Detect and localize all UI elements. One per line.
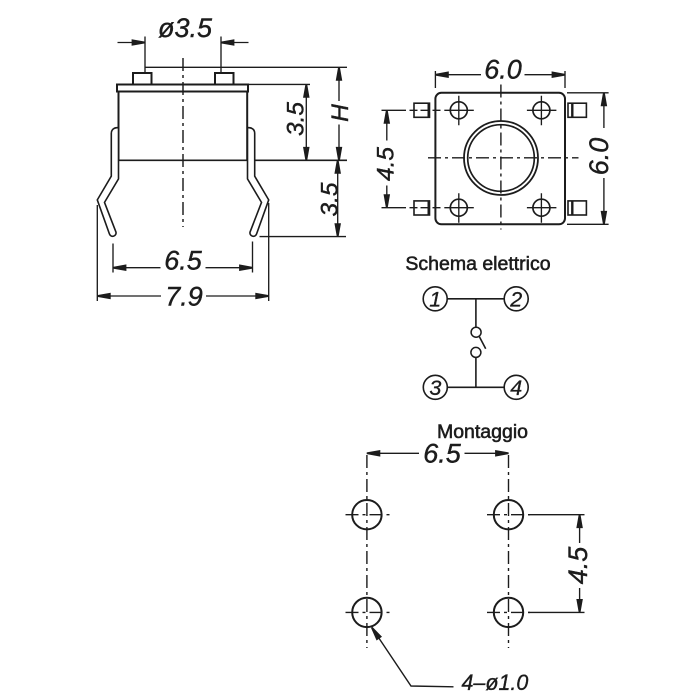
svg-text:7.9: 7.9 — [165, 281, 203, 311]
terminal tab left-top — [382, 103, 444, 117]
dimension 4.5 (mounting hole row spacing) — [528, 515, 585, 613]
contact hole bottom-left — [444, 193, 474, 223]
svg-text:6.0: 6.0 — [484, 54, 522, 84]
leader 4-ø1.0 — [372, 628, 454, 687]
plunger boss right — [215, 73, 234, 85]
hole crosshair bottom-left — [346, 611, 390, 613]
right leg — [248, 128, 269, 237]
button inner circle — [468, 125, 535, 192]
contact hole top-right — [527, 96, 557, 126]
mounting hole top-right — [494, 500, 523, 529]
svg-text:3: 3 — [429, 376, 441, 400]
plunger top line (top of stem) — [146, 66, 348, 68]
mounting hole bottom-right — [494, 598, 523, 627]
dimension 4.5 (contact row spacing, top view) — [386, 110, 388, 207]
svg-text:H: H — [327, 104, 354, 122]
svg-text:1: 1 — [429, 288, 441, 312]
switch blade (open) — [479, 337, 485, 349]
wire terminal1-terminal2 — [447, 298, 504, 300]
wire lower contact to bottom — [475, 358, 477, 388]
svg-text:4–ø1.0: 4–ø1.0 — [462, 670, 529, 695]
button outer circle — [464, 121, 538, 195]
terminal tab right-bottom — [568, 201, 586, 215]
dimension 3.5 (body height) — [246, 84, 311, 160]
body base line — [119, 159, 348, 161]
svg-text:ø3.5: ø3.5 — [158, 13, 213, 43]
top view horizontal centerline — [428, 157, 579, 159]
svg-text:6.5: 6.5 — [164, 245, 203, 275]
svg-text:4.5: 4.5 — [563, 546, 593, 585]
top view body outline — [435, 93, 565, 225]
hole crosshair top-right — [487, 514, 530, 516]
dimension 6.5 (mounting hole column spacing) — [367, 452, 509, 454]
terminal tab left-bottom — [382, 201, 444, 215]
wire terminal3-terminal4 — [447, 386, 504, 388]
dimension 6.0 (top width) — [435, 71, 565, 88]
plunger boss left — [133, 73, 152, 85]
lower contact circle — [471, 347, 481, 357]
mounting hole top-left — [352, 500, 381, 529]
svg-text:4.5: 4.5 — [372, 147, 399, 181]
svg-text:Schema elettrico: Schema elettrico — [405, 253, 550, 275]
terminal 2 circle — [504, 287, 528, 311]
terminal 3 circle — [423, 375, 447, 399]
dimension 7.9 (outer leg spacing) — [97, 203, 268, 301]
terminal tab right-top — [568, 103, 586, 117]
hole crosshair bottom-right — [487, 611, 530, 613]
svg-text:6.0: 6.0 — [584, 138, 614, 176]
cover plate — [117, 85, 248, 92]
contact hole bottom-right — [527, 193, 557, 223]
mounting hole bottom-left — [352, 598, 381, 627]
left leg — [97, 128, 118, 237]
hole crosshair top-left — [346, 514, 390, 516]
dimension 6.0 (right height) — [567, 93, 609, 225]
svg-text:2: 2 — [509, 288, 522, 312]
dimension 3.5 (leg length) — [260, 160, 347, 236]
terminal 4 circle — [504, 375, 528, 399]
dimension ø3.5 (plunger diameter) — [118, 37, 249, 74]
wire top to upper contact — [475, 299, 477, 327]
body right side — [246, 92, 248, 161]
contact hole top-left — [444, 96, 474, 126]
right column centerline — [508, 455, 510, 648]
svg-text:4: 4 — [510, 376, 522, 400]
left column centerline — [366, 455, 368, 648]
centerline of switch side view — [182, 58, 184, 227]
svg-text:3.5: 3.5 — [282, 102, 309, 136]
upper contact circle — [471, 327, 481, 337]
svg-text:3.5: 3.5 — [316, 182, 343, 216]
body left side — [118, 92, 120, 161]
dimension H (overall height) — [338, 67, 340, 160]
svg-text:6.5: 6.5 — [423, 439, 462, 469]
terminal 1 circle — [423, 287, 447, 311]
dimension 6.5 (leg tip spacing) — [113, 242, 253, 273]
top view vertical centerline — [500, 85, 502, 230]
